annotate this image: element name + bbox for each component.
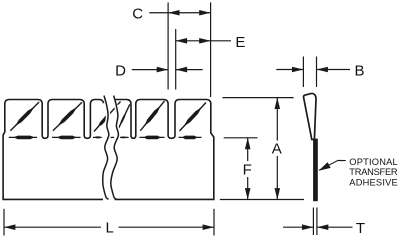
dimension D leader left xyxy=(132,67,168,73)
dimension F extension line top xyxy=(224,137,258,139)
svg-text:B: B xyxy=(354,63,364,80)
broken finger piece diagonal crease xyxy=(117,104,130,131)
dimension L line and arrows xyxy=(4,224,214,230)
finger 4 diagonal crease xyxy=(140,101,164,131)
svg-text:A: A xyxy=(272,140,282,157)
adhesive strip (black bar) xyxy=(313,139,318,202)
break line 2 (right squiggle) xyxy=(111,96,119,200)
dimension L extension line right xyxy=(213,209,215,236)
finger 4 fold line xyxy=(140,136,165,140)
front view strip outline (right part, after break) xyxy=(115,100,214,200)
svg-text:C: C xyxy=(132,6,143,23)
dimension B extension line right xyxy=(316,57,318,88)
label OPTIONAL TRANSFER ADHESIVE xyxy=(349,157,398,187)
svg-text:T: T xyxy=(356,220,365,237)
dimension A extension line top xyxy=(222,97,293,99)
svg-text:ADHESIVE: ADHESIVE xyxy=(349,177,398,187)
dimension T extension line right xyxy=(316,208,318,236)
finger 5 fold line xyxy=(179,136,202,140)
dimension L extension line left xyxy=(3,209,5,236)
dimension F line and arrows xyxy=(245,138,251,200)
finger 2 fold line xyxy=(52,136,81,140)
dimension A line and arrows xyxy=(275,98,281,200)
adhesive leader line xyxy=(319,160,346,170)
svg-text:F: F xyxy=(243,162,252,179)
dimension B extension line left xyxy=(302,57,304,88)
svg-text:L: L xyxy=(106,219,114,236)
dimension D leader right xyxy=(176,67,203,73)
dimension E line and arrows xyxy=(176,38,231,44)
svg-text:OPTIONAL: OPTIONAL xyxy=(349,157,398,167)
svg-text:TRANSFER: TRANSFER xyxy=(349,167,398,177)
svg-text:E: E xyxy=(235,34,245,51)
break line 1 (left squiggle) xyxy=(103,96,109,200)
side view finger wedge xyxy=(304,93,316,139)
dimension B arrows xyxy=(276,67,350,73)
fold line segment between break lines xyxy=(107,136,114,138)
finger 2 diagonal crease xyxy=(53,102,82,131)
dimension T arrows xyxy=(283,224,353,230)
dimension C line and arrows xyxy=(149,10,210,16)
svg-text:D: D xyxy=(115,63,126,80)
dimension C extension line left xyxy=(167,2,169,89)
dimension A extension line bottom xyxy=(220,199,304,201)
front view strip outline (left part, up to break) xyxy=(3,100,104,200)
dimension E extension line middle xyxy=(175,29,177,90)
dimension C extension line right xyxy=(210,2,212,97)
dimension T extension line left xyxy=(312,208,314,236)
finger 5 diagonal crease xyxy=(180,103,207,132)
finger 1 fold line xyxy=(9,136,37,140)
broken piece fold line xyxy=(118,137,128,139)
finger 1 diagonal crease xyxy=(10,102,39,131)
finger 3 diagonal crease (cut by break) xyxy=(94,102,121,132)
finger 3 fold line xyxy=(93,136,102,138)
